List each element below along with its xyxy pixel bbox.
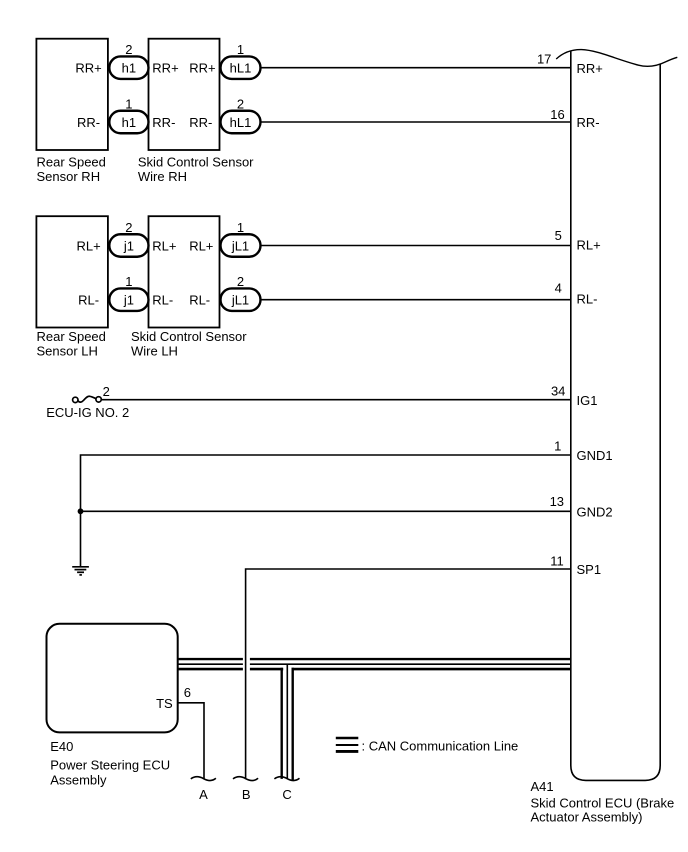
svg-text:RL+: RL+	[152, 238, 176, 253]
svg-text:j1: j1	[123, 238, 134, 253]
svg-text:1: 1	[125, 274, 132, 289]
svg-text:Sensor RH: Sensor RH	[37, 169, 101, 184]
svg-text:2: 2	[125, 220, 132, 235]
svg-text:2: 2	[125, 42, 132, 57]
pin oval jL1 (RL+)	[221, 234, 261, 257]
svg-text:RR-: RR-	[577, 115, 600, 130]
svg-text:5: 5	[555, 228, 562, 243]
svg-text:1: 1	[554, 438, 561, 453]
svg-text:: CAN Communication Line: : CAN Communication Line	[362, 738, 519, 753]
svg-text:RL+: RL+	[577, 238, 601, 253]
connector box: Skid Control Sensor Wire LH	[149, 216, 220, 327]
connector box: Skid Control Sensor Wire RH	[149, 39, 220, 150]
pin oval j1 (RL-)	[109, 288, 148, 311]
svg-text:GND1: GND1	[577, 448, 613, 463]
wire RL+ to ECU pin 5	[261, 245, 571, 247]
ECU A41 body outline	[571, 51, 660, 781]
connector box: Rear Speed Sensor RH	[36, 39, 108, 150]
svg-text:1: 1	[125, 96, 132, 111]
connector box E40 Power Steering ECU Assembly	[47, 624, 178, 733]
svg-text:j1: j1	[123, 293, 134, 308]
svg-text:IG1: IG1	[577, 393, 598, 408]
svg-text:Power Steering ECU: Power Steering ECU	[50, 757, 170, 772]
svg-text:4: 4	[555, 281, 562, 296]
svg-text:Rear Speed: Rear Speed	[37, 329, 106, 344]
svg-text:jL1: jL1	[231, 238, 249, 253]
fuse ECU-IG NO. 2 right terminal	[96, 397, 101, 402]
svg-text:RL+: RL+	[189, 238, 213, 253]
svg-text:RR-: RR-	[77, 115, 100, 130]
break symbol A	[191, 777, 216, 781]
ECU A41 outline (torn top edge wave)	[556, 50, 677, 67]
svg-text:B: B	[242, 787, 251, 802]
svg-text:Rear Speed: Rear Speed	[37, 155, 106, 170]
svg-text:GND2: GND2	[577, 505, 613, 520]
svg-text:Actuator Assembly): Actuator Assembly)	[531, 809, 643, 824]
svg-text:TS: TS	[156, 696, 173, 711]
svg-text:16: 16	[550, 107, 564, 122]
wire RL- to ECU pin 4	[261, 299, 571, 301]
fuse ECU-IG NO. 2 element	[78, 396, 96, 402]
CAN line bottom (E40 to ECU)	[178, 668, 243, 671]
svg-text:17: 17	[537, 52, 551, 67]
svg-text:RL+: RL+	[76, 238, 100, 253]
pin oval hL1 (RR+)	[221, 56, 261, 78]
legend CAN symbol	[336, 738, 359, 751]
svg-text:RR+: RR+	[577, 61, 603, 76]
fuse ECU-IG NO. 2 left terminal	[73, 397, 78, 402]
svg-text:1: 1	[237, 42, 244, 57]
svg-text:RR-: RR-	[189, 115, 212, 130]
wire RR- to ECU pin 16	[261, 121, 571, 123]
svg-text:ECU-IG NO. 2: ECU-IG NO. 2	[46, 405, 129, 420]
svg-text:Wire RH: Wire RH	[138, 169, 187, 184]
svg-text:RL-: RL-	[577, 292, 598, 307]
svg-text:SP1: SP1	[577, 562, 602, 577]
svg-text:6: 6	[184, 685, 191, 700]
pin oval jL1 (RL-)	[221, 288, 261, 311]
svg-text:11: 11	[550, 553, 564, 568]
svg-text:Skid Control ECU (Brake: Skid Control ECU (Brake	[531, 796, 675, 811]
svg-text:2: 2	[103, 384, 110, 399]
svg-text:RR+: RR+	[152, 61, 178, 76]
svg-text:h1: h1	[122, 61, 136, 76]
pin oval hL1 (RR-)	[221, 111, 261, 134]
pin oval h1 (RR+)	[109, 56, 148, 78]
svg-text:RL-: RL-	[189, 293, 210, 308]
svg-text:C: C	[282, 787, 291, 802]
junction dot GND	[78, 508, 84, 514]
pin oval j1 (RL+)	[109, 234, 148, 257]
svg-text:RR+: RR+	[75, 61, 101, 76]
svg-text:RR-: RR-	[152, 115, 175, 130]
CAN line middle (E40 to ECU)	[178, 663, 243, 665]
svg-text:Wire LH: Wire LH	[131, 343, 178, 358]
svg-text:RR+: RR+	[189, 61, 215, 76]
CAN line top (E40 to ECU)	[178, 658, 243, 660]
ground symbol	[72, 567, 89, 575]
connector box: Rear Speed Sensor LH	[36, 216, 108, 327]
svg-text:13: 13	[550, 494, 564, 509]
svg-text:2: 2	[237, 96, 244, 111]
svg-text:34: 34	[551, 383, 565, 398]
break symbol C	[274, 777, 299, 781]
svg-text:RL-: RL-	[152, 293, 173, 308]
svg-text:E40: E40	[50, 739, 73, 754]
svg-text:hL1: hL1	[230, 115, 252, 130]
svg-text:Skid Control Sensor: Skid Control Sensor	[138, 155, 254, 170]
wire IG1 to ECU pin 34	[101, 399, 570, 401]
svg-text:h1: h1	[122, 115, 136, 130]
svg-text:Skid Control Sensor: Skid Control Sensor	[131, 329, 247, 344]
CAN branch vertical to C	[281, 668, 283, 779]
svg-text:A41: A41	[531, 779, 554, 794]
break symbol B	[233, 777, 258, 781]
wire GND1 to ECU pin 1	[81, 455, 571, 567]
svg-text:A: A	[199, 787, 208, 802]
svg-text:jL1: jL1	[231, 293, 249, 308]
svg-text:2: 2	[237, 274, 244, 289]
wire TS to A	[178, 703, 204, 779]
svg-text:Sensor LH: Sensor LH	[37, 343, 98, 358]
pin oval h1 (RR-)	[109, 111, 148, 134]
wire GND2 to ECU pin 13	[81, 510, 571, 512]
svg-text:RL-: RL-	[78, 293, 99, 308]
svg-text:hL1: hL1	[230, 61, 252, 76]
svg-text:Assembly: Assembly	[50, 772, 107, 787]
svg-text:1: 1	[237, 220, 244, 235]
wire RR+ to ECU pin 17	[261, 67, 571, 69]
wire SP1 to ECU pin 11	[246, 569, 571, 779]
